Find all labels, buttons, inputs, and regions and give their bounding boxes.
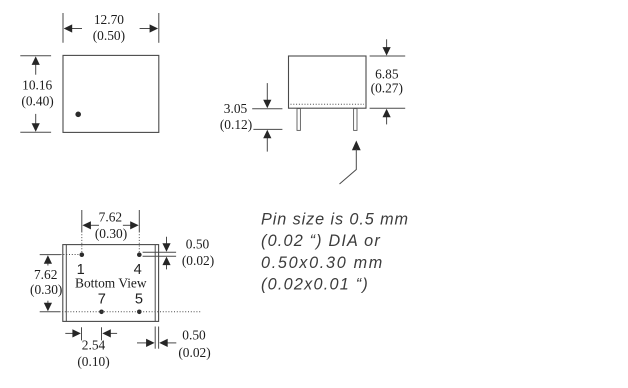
bottom view inner left line xyxy=(65,245,67,322)
bottom view pin 5 dot xyxy=(137,310,142,315)
svg-text:2.54: 2.54 xyxy=(82,338,106,353)
dimension 6.85 (0.27) up arrow below xyxy=(383,109,391,125)
svg-text:10.16: 10.16 xyxy=(22,77,52,92)
dimension 3.05 (0.12) extension line top xyxy=(252,108,282,110)
svg-text:0.50: 0.50 xyxy=(186,236,210,251)
leader arrow pointing to right pin xyxy=(340,141,361,185)
dimension 0.50 (0.02) rim: extension line outer xyxy=(158,327,160,349)
dimension 2.54 (0.10) left arrow xyxy=(65,329,81,337)
dimension 2.54 (0.10): extension line pin1 column xyxy=(81,327,83,340)
dimension 7.62 (0.30) top right arrow xyxy=(123,221,139,229)
svg-text:3.05: 3.05 xyxy=(224,101,248,116)
dimension 7.62 (0.30) top: extension line pin1 column xyxy=(81,210,83,232)
dimension 12.70 (0.50) extension line left xyxy=(62,13,64,43)
dimension 7.62 (0.30) top left arrow xyxy=(82,221,99,229)
note text pin size xyxy=(261,211,409,294)
svg-text:(0.30): (0.30) xyxy=(95,226,127,241)
dimension 10.16 (0.40) extension line top xyxy=(20,55,51,57)
top view pin-1 marker dot xyxy=(75,112,81,118)
dimension 0.50 (0.02) pin width down arrow xyxy=(162,237,170,252)
svg-text:7: 7 xyxy=(98,292,106,308)
svg-text:5: 5 xyxy=(135,292,143,308)
svg-text:7.62: 7.62 xyxy=(34,267,57,282)
bottom view pin 1 dot xyxy=(80,252,85,257)
dimension 12.70 (0.50) right arrow xyxy=(140,24,159,32)
svg-text:6.85: 6.85 xyxy=(375,67,399,82)
svg-text:(0.40): (0.40) xyxy=(21,93,53,108)
dimension 6.85 (0.27) extension line bottom xyxy=(370,107,406,109)
svg-text:(0.02 “) DIA or: (0.02 “) DIA or xyxy=(261,232,381,250)
dimension 10.16 (0.40) down arrow xyxy=(32,114,40,132)
dotted centerline through pin 1 column xyxy=(81,232,83,253)
svg-text:(0.30): (0.30) xyxy=(30,282,62,297)
dimension 2.54 (0.10): extension line pin7 column xyxy=(101,327,103,340)
side view package body outline xyxy=(289,56,367,108)
svg-text:(0.50): (0.50) xyxy=(93,28,125,43)
dimension 7.62 (0.30) left: extension line pin1 row xyxy=(40,254,61,256)
dimension 3.05 (0.12) extension line bottom xyxy=(253,128,282,130)
svg-text:(0.02): (0.02) xyxy=(178,345,210,360)
bottom view pin 7 dot xyxy=(99,310,104,315)
bottom view inner right line xyxy=(154,245,156,322)
svg-text:(0.27): (0.27) xyxy=(371,81,403,96)
dimension 7.62 (0.30) left: extension line bottom row xyxy=(40,311,61,313)
top view package body outline xyxy=(63,55,159,132)
dimension 0.50 (0.02) rim left arrow xyxy=(137,339,155,347)
dimension 0.50 (0.02) rim: extension line inner xyxy=(154,327,156,349)
svg-text:(0.10): (0.10) xyxy=(77,354,109,369)
dimension 10.16 (0.40) up arrow xyxy=(32,56,40,74)
dimension 0.50 (0.02) pin width up arrow xyxy=(162,257,170,270)
dimension 7.62 (0.30) left down arrow xyxy=(44,301,52,312)
dimension 0.50 (0.02) rim right arrow xyxy=(159,339,176,347)
svg-text:(0.12): (0.12) xyxy=(220,117,252,132)
dimension 3.05 (0.12) down arrow above xyxy=(263,83,271,108)
side view left pin xyxy=(297,109,300,131)
dotted centerline through pin 4 column xyxy=(138,232,140,253)
dimension 3.05 (0.12) up arrow below xyxy=(263,130,271,152)
svg-text:7.62: 7.62 xyxy=(99,210,122,225)
dimension 7.62 (0.30) left up arrow xyxy=(44,255,52,265)
bottom view pin 4 dot xyxy=(137,252,142,257)
dimension 6.85 (0.27) extension line top xyxy=(370,55,406,57)
dimension 7.62 (0.30) top: extension line pin4 column xyxy=(138,210,140,232)
dimension 12.70 (0.50) left arrow xyxy=(64,24,82,32)
svg-text:0.50: 0.50 xyxy=(182,327,206,342)
dimension 12.70 (0.50) extension line right xyxy=(158,13,160,43)
side view dotted standoff line xyxy=(291,103,365,105)
side view right pin xyxy=(354,109,357,131)
svg-text:Pin size is 0.5 mm: Pin size is 0.5 mm xyxy=(261,211,409,229)
dotted centerline through pin 1 row xyxy=(61,254,79,256)
dimension 0.50 (0.02) pin width: upper line from pin 4 xyxy=(143,251,177,253)
dimension 10.16 (0.40) extension line bottom xyxy=(20,131,51,133)
svg-text:(0.02x0.01 “): (0.02x0.01 “) xyxy=(261,275,369,293)
dimension 2.54 (0.10) right arrow xyxy=(102,329,117,337)
svg-text:12.70: 12.70 xyxy=(94,12,124,27)
bottom view outer outline xyxy=(63,245,159,322)
dimension 0.50 (0.02) pin width: lower line from pin 4 xyxy=(143,255,177,257)
svg-text:(0.02): (0.02) xyxy=(182,253,214,268)
svg-text:Bottom View: Bottom View xyxy=(75,276,147,291)
dotted line through pins 7 and 5 row xyxy=(62,311,201,313)
dimension 6.85 (0.27) down arrow above xyxy=(383,39,391,55)
svg-text:0.50x0.30 mm: 0.50x0.30 mm xyxy=(261,254,384,272)
